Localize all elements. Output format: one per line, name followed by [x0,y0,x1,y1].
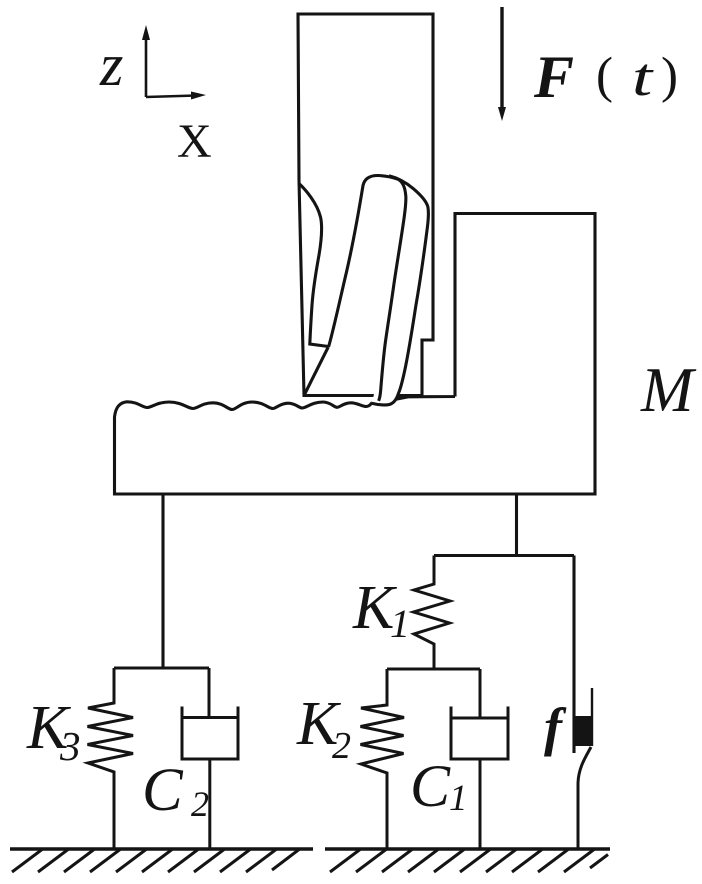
cutter flute outer edge (double line) [372,176,429,405]
cutter left flute sliver [299,183,329,347]
inner box top bar [387,667,480,670]
svg-text:(: ( [596,48,613,104]
label C1 [410,753,468,819]
spring K1 [414,556,451,670]
ground right [325,849,610,872]
svg-text:M: M [640,355,697,425]
damper C2 [181,668,240,849]
svg-text:2: 2 [332,725,351,767]
svg-text:3: 3 [59,723,81,769]
svg-text:t: t [632,47,655,107]
label K1 [352,574,410,646]
label K3 [26,694,81,769]
axis Z arrow [142,25,150,97]
axis X arrow [146,92,206,100]
svg-text:z: z [99,32,123,98]
spring K3 [88,668,134,849]
svg-text:1: 1 [390,601,410,646]
svg-text:C: C [410,753,451,819]
damper C1 [450,669,510,849]
friction branch wire [572,556,575,754]
svg-text:X: X [177,115,212,168]
mass block M with machined wavy top surface [115,214,596,495]
svg-text:1: 1 [449,778,468,819]
cutter lower facet line [304,347,329,396]
label K2 [296,690,351,767]
wire from block to right unit [515,494,518,556]
cutter body outline [298,14,433,396]
spring K2 [361,669,405,849]
svg-text:): ) [661,48,678,104]
force arrow F(t) [498,7,506,121]
ground left [10,849,313,872]
left unit top bar [114,666,209,669]
right unit top bar [434,554,574,557]
svg-text:2: 2 [191,784,209,824]
label F(t) [533,44,678,110]
cutter main flute band (white fill covers lines behind) [329,175,429,404]
label C2 [142,757,209,824]
friction element f [575,688,593,849]
svg-text:f: f [544,697,567,757]
svg-text:F: F [533,44,574,110]
wire from block to left unit [161,494,164,668]
svg-text:C: C [142,757,184,824]
